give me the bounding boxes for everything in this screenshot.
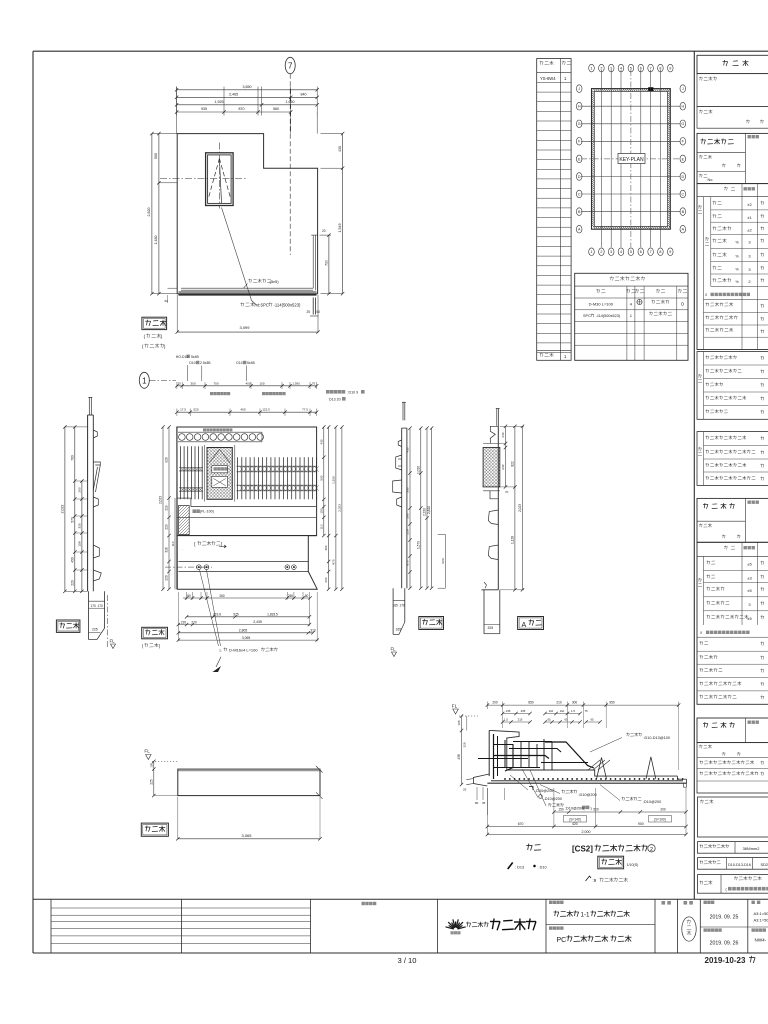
svg-text:): ) <box>159 643 161 648</box>
svg-text:SD2: SD2 <box>761 862 768 867</box>
svg-text:[S=140]: [S=140] <box>569 817 580 821</box>
label box 外観図 <box>141 823 168 836</box>
svg-text:FL: FL <box>391 647 397 652</box>
svg-text:1: 1 <box>564 354 567 359</box>
svg-text:±5: ±5 <box>747 562 752 567</box>
svg-text:1,549: 1,549 <box>338 224 342 233</box>
svg-text:950: 950 <box>609 701 615 705</box>
svg-text:[: [ <box>194 542 196 547</box>
svg-text:-D10@200: -D10@200 <box>535 789 553 793</box>
svg-text:3,099: 3,099 <box>239 325 250 330</box>
side view (right) lower part <box>393 588 406 634</box>
side view 側面図 (right) profile <box>393 402 407 588</box>
svg-text:200: 200 <box>492 701 498 705</box>
svg-text:65: 65 <box>564 718 568 722</box>
CS2 spacer triangles <box>597 757 656 779</box>
svg-text:220: 220 <box>181 620 187 624</box>
svg-text:520: 520 <box>593 808 599 812</box>
CS2 note 上端主筋 (right top) <box>590 733 670 752</box>
svg-text:): ) <box>591 806 593 810</box>
svg-text:632: 632 <box>501 464 505 469</box>
chamfer note 9c面取りを示す <box>586 876 628 883</box>
svg-text:590: 590 <box>406 487 410 492</box>
svg-text:80: 80 <box>475 801 479 805</box>
svg-text:2: 2 <box>600 250 602 254</box>
svg-text:3: 3 <box>748 240 751 245</box>
plan small left dim 60 <box>165 288 178 303</box>
svg-text:2,023: 2,023 <box>159 496 163 504</box>
svg-text:2,023: 2,023 <box>518 504 522 512</box>
svg-text:7: 7 <box>650 250 652 254</box>
label box A面図 <box>518 617 544 630</box>
出荷検査 section <box>697 718 768 743</box>
svg-text:325: 325 <box>488 626 494 630</box>
svg-text:C: C <box>681 192 684 196</box>
pre-pour measurement table <box>697 184 768 350</box>
svg-text:A: A <box>682 228 685 232</box>
CS2 rebar (dark lines) <box>478 734 683 781</box>
svg-text:9: 9 <box>669 67 671 71</box>
plan centerline crosshair <box>160 143 246 209</box>
key plan grid centerlines <box>581 70 680 247</box>
svg-text:2,435: 2,435 <box>253 620 262 624</box>
svg-text:215: 215 <box>518 718 523 722</box>
date stamp 2019-10-23 <box>705 956 756 965</box>
svg-text:PC: PC <box>557 937 567 944</box>
svg-text:FL: FL <box>144 749 150 754</box>
svg-text:629: 629 <box>441 558 445 563</box>
top view left dimension chain <box>159 425 175 591</box>
svg-text:5x4B: 5x4B <box>247 361 255 365</box>
svg-text:(: ( <box>142 344 144 349</box>
elevation 外観図 rectangle <box>178 766 323 799</box>
legend 凡例 <box>508 844 547 870</box>
svg-text:G: G <box>578 122 581 126</box>
shipping inspection rows <box>697 743 768 793</box>
svg-text:]: ] <box>221 542 222 547</box>
svg-text:1: 1 <box>142 376 147 385</box>
svg-text:1,480: 1,480 <box>154 236 158 245</box>
svg-text:200: 200 <box>660 808 666 812</box>
dates column <box>700 901 748 947</box>
svg-text:5x4B: 5x4B <box>191 355 199 359</box>
svg-text:J: J <box>578 87 580 91</box>
svg-text:O: O <box>681 301 685 306</box>
svg-text:D-M30 L=100: D-M30 L=100 <box>589 301 614 306</box>
svg-text:360: 360 <box>324 545 328 550</box>
svg-text:: D10: : D10 <box>538 866 547 870</box>
svg-text:A: A <box>522 622 527 629</box>
svg-text:560: 560 <box>273 107 279 111</box>
svg-text:B: B <box>578 210 581 214</box>
side view 側面図 (left) profile <box>88 397 102 591</box>
svg-text:5: 5 <box>630 250 632 254</box>
svg-text:400: 400 <box>240 408 245 412</box>
確認者 box <box>698 797 768 837</box>
svg-text:870: 870 <box>239 107 245 111</box>
作図 column + stamp circle <box>682 901 696 941</box>
svg-text:C: C <box>578 192 581 196</box>
svg-text:F: F <box>682 140 685 144</box>
svg-text:KEY-PLAN: KEY-PLAN <box>619 157 644 163</box>
svg-text:60: 60 <box>317 310 321 314</box>
svg-text:F: F <box>578 140 581 144</box>
svg-text:100: 100 <box>259 381 264 385</box>
svg-text:%: % <box>736 280 740 284</box>
svg-text:-114(500x523): -114(500x523) <box>596 314 621 318</box>
svg-text:1.5: 1.5 <box>571 709 575 713</box>
svg-text:2,805: 2,805 <box>239 629 248 633</box>
svg-text:325: 325 <box>77 523 81 528</box>
svg-text:205: 205 <box>521 709 526 713</box>
svg-text:-114(500x523): -114(500x523) <box>274 303 302 308</box>
svg-text:2,023: 2,023 <box>338 504 342 512</box>
svg-text:): ) <box>164 344 166 349</box>
製造日 row <box>697 107 768 129</box>
direction arrow A <box>213 657 222 672</box>
svg-text:2019. 09. 26: 2019. 09. 26 <box>710 940 739 946</box>
svg-text::D10@200: :D10@200 <box>579 793 597 797</box>
rebar inspection rows <box>697 352 768 420</box>
svg-text:D10: D10 <box>236 361 242 365</box>
svg-text:1,128: 1,128 <box>511 536 515 544</box>
コンクリート強度 row <box>698 842 768 854</box>
svg-text:. . .: . . . <box>180 547 184 551</box>
plan bottom right spout detail <box>307 298 321 317</box>
svg-text:SPC: SPC <box>583 314 591 318</box>
plan drip groove double line <box>181 235 318 290</box>
svg-text:[CS2]: [CS2] <box>572 845 593 854</box>
svg-text:70: 70 <box>312 381 316 385</box>
svg-text:L: L <box>220 648 223 653</box>
A面図 lower part <box>484 590 500 634</box>
KEY-PLAN label <box>618 154 645 164</box>
CS2 bottom dimension chains <box>486 788 688 836</box>
top view left rebar group <box>179 446 203 499</box>
svg-text:700: 700 <box>213 381 218 385</box>
svg-text:592: 592 <box>319 475 323 480</box>
key plan axis circles left J-A <box>576 85 582 233</box>
svg-text:450: 450 <box>70 557 74 563</box>
svg-text:YS-6W4: YS-6W4 <box>540 76 556 81</box>
svg-text:1: 1 <box>590 67 592 71</box>
打設前検査 section header <box>697 133 768 183</box>
svg-text:HO-D10: HO-D10 <box>176 355 189 359</box>
svg-text:570: 570 <box>70 517 74 523</box>
svg-text:260: 260 <box>219 594 225 598</box>
svg-text::9: :9 <box>593 878 597 883</box>
svg-text:225: 225 <box>92 628 98 632</box>
svg-text:2,465: 2,465 <box>229 92 238 96</box>
svg-text:B: B <box>682 210 685 214</box>
CS2 title 【CS2】バルコニー形状(2) <box>572 844 655 853</box>
svg-text:240: 240 <box>501 432 505 437</box>
svg-text:36N/mm2: 36N/mm2 <box>743 846 760 851</box>
svg-text:520: 520 <box>193 408 198 412</box>
section A面図 profile <box>482 408 500 590</box>
plan left dimension chain <box>147 132 177 296</box>
svg-text:E: E <box>682 157 685 161</box>
svg-text:730: 730 <box>324 260 328 266</box>
svg-text::D10 9: :D10 9 <box>348 390 359 394</box>
svg-text:920: 920 <box>165 457 169 463</box>
svg-text:-D10@200: -D10@200 <box>544 797 562 801</box>
plan bottom thick edge (drip) <box>179 292 317 295</box>
svg-text:310: 310 <box>310 629 316 633</box>
svg-text:FL: FL <box>110 639 116 644</box>
svg-text:3: 3 <box>748 254 751 259</box>
製品番号 row <box>697 74 768 107</box>
svg-text:6: 6 <box>640 250 642 254</box>
svg-text:105: 105 <box>149 762 153 767</box>
FL marker CS2 <box>452 704 478 717</box>
svg-text:229: 229 <box>165 524 169 530</box>
svg-text:210: 210 <box>556 701 562 705</box>
revision table header <box>362 902 377 905</box>
svg-text:1/10(S): 1/10(S) <box>627 863 639 867</box>
FL marker 外観図 <box>144 749 178 762</box>
svg-text:1.5: 1.5 <box>504 718 508 722</box>
svg-text:225: 225 <box>149 779 153 785</box>
label box 配筋図 + scale <box>598 856 638 869</box>
embedded parts inspection rows <box>697 432 768 486</box>
svg-text:17.5: 17.5 <box>180 408 186 412</box>
svg-text:2.5x3B: 2.5x3B <box>200 361 211 365</box>
svg-text:D: D <box>578 175 581 179</box>
svg-text:220: 220 <box>165 575 169 581</box>
svg-text:935: 935 <box>201 107 207 111</box>
top view center opening (hatch box) <box>205 445 235 502</box>
svg-text:328: 328 <box>463 742 467 747</box>
svg-text:(FL-100): (FL-100) <box>200 510 214 514</box>
top view circles row (U-bars) <box>178 428 264 441</box>
svg-text:D13 20: D13 20 <box>329 397 341 401</box>
svg-text:1,579: 1,579 <box>416 541 420 549</box>
scale column 縮尺/図面番号 <box>748 901 768 943</box>
外観図 bottom dimension 3,065 <box>176 797 322 841</box>
side view (left) dimension chains <box>60 425 87 593</box>
svg-text:2: 2 <box>748 279 751 284</box>
svg-text:270: 270 <box>191 620 197 624</box>
svg-text:430: 430 <box>338 146 342 152</box>
svg-text:E: E <box>578 157 581 161</box>
top view right rebar group <box>237 457 319 499</box>
svg-text:60: 60 <box>165 299 169 303</box>
svg-text:110: 110 <box>560 709 565 713</box>
svg-text:220: 220 <box>70 580 74 586</box>
svg-text:2019-10-23: 2019-10-23 <box>705 956 746 965</box>
svg-text:H: H <box>578 105 581 109</box>
svg-text:760: 760 <box>70 455 74 461</box>
svg-text:D: D <box>681 175 684 179</box>
svg-text:mt:SPC: mt:SPC <box>255 303 269 308</box>
CS2 left small dims <box>457 714 504 815</box>
svg-text:±2: ±2 <box>747 202 752 207</box>
svg-text:3 / 10: 3 / 10 <box>398 956 417 965</box>
side view (left) lower spout <box>89 591 108 648</box>
svg-text:220: 220 <box>324 577 328 582</box>
svg-text:90: 90 <box>187 594 191 598</box>
svg-text:420: 420 <box>572 822 578 826</box>
svg-text:135: 135 <box>506 709 511 713</box>
svg-text:9: 9 <box>669 250 671 254</box>
svg-text:110: 110 <box>171 541 175 546</box>
leader + note 水切り溝 (5x5) <box>244 279 280 288</box>
svg-text:430: 430 <box>406 447 410 452</box>
svg-text:500: 500 <box>154 153 158 159</box>
axis circle 1 (top view grid) <box>139 372 176 388</box>
top view 上面図 outline <box>177 427 317 589</box>
svg-text:2,320: 2,320 <box>423 508 427 516</box>
svg-text:3,650: 3,650 <box>243 85 252 89</box>
svg-text:25: 25 <box>307 310 311 314</box>
note 主筋本数計 <box>326 390 365 401</box>
svg-text:1: 1 <box>630 313 633 318</box>
svg-text:316: 316 <box>165 547 169 553</box>
svg-text:3: 3 <box>748 602 751 607</box>
top view right dimension chain <box>319 425 343 591</box>
CS2 notes 下端主筋/下端配力筋 <box>540 785 661 805</box>
svg-text:(5x5): (5x5) <box>270 279 280 284</box>
svg-text:165: 165 <box>393 604 399 608</box>
svg-text:[S=100]: [S=100] <box>654 817 665 821</box>
svg-text:400: 400 <box>245 381 250 385</box>
top view lifting inserts <box>165 565 296 570</box>
svg-text:G: G <box>681 122 684 126</box>
svg-text:FL: FL <box>452 704 458 709</box>
svg-text:280: 280 <box>406 513 410 518</box>
key plan outline (formwork band) <box>592 89 671 230</box>
svg-text:No.: No. <box>708 178 714 182</box>
CS2 notes left (bar marks) <box>510 769 593 810</box>
parts list table 取付部品リスト <box>575 273 688 360</box>
svg-text:8: 8 <box>659 250 661 254</box>
svg-text:870: 870 <box>332 559 336 564</box>
svg-text:300: 300 <box>190 381 195 385</box>
svg-text:105: 105 <box>457 720 461 725</box>
svg-text:2,023: 2,023 <box>60 505 64 514</box>
svg-text:A3:1=50: A3:1=50 <box>754 918 768 923</box>
svg-text:65: 65 <box>590 718 594 722</box>
plan view 下面図 outline <box>177 134 317 294</box>
svg-text:D10: D10 <box>189 361 195 365</box>
svg-text:822: 822 <box>511 461 515 467</box>
svg-text:4: 4 <box>630 301 633 306</box>
svg-text:150: 150 <box>319 508 323 513</box>
svg-text:±1: ±1 <box>747 215 752 220</box>
svg-text:(: ( <box>144 334 146 339</box>
svg-text:(: ( <box>142 643 144 648</box>
svg-text:170: 170 <box>91 604 97 608</box>
top view upper dimension chains <box>175 381 318 416</box>
svg-text:850: 850 <box>528 701 534 705</box>
svg-text:2,820: 2,820 <box>427 506 431 514</box>
svg-text:430: 430 <box>319 439 323 444</box>
svg-text:260: 260 <box>288 594 294 598</box>
svg-text:1: 1 <box>590 250 592 254</box>
side view (right) dimension chains <box>406 426 446 590</box>
svg-text:170: 170 <box>98 604 104 608</box>
svg-text:3: 3 <box>610 250 612 254</box>
CS2 concrete profile <box>466 730 686 787</box>
label box 上面図 (打設面) <box>142 627 168 648</box>
svg-text:228: 228 <box>406 529 410 534</box>
svg-text:438: 438 <box>457 754 461 760</box>
svg-text:A: A <box>578 228 581 232</box>
leader + note 連結mt:SPC型-114(500x523) <box>222 208 302 308</box>
鋼材の種類 row <box>698 858 768 870</box>
svg-text:1,516: 1,516 <box>332 476 336 484</box>
svg-text:575: 575 <box>233 613 239 617</box>
label box 側面図 (right) <box>419 617 444 630</box>
svg-text:±5: ±5 <box>747 588 752 593</box>
svg-text:170: 170 <box>400 604 406 608</box>
外観図 left dimension <box>149 760 177 798</box>
svg-text:300: 300 <box>572 701 578 705</box>
svg-text:3,065: 3,065 <box>242 636 251 640</box>
svg-text:%: % <box>736 255 740 259</box>
仕上げ row <box>698 875 768 894</box>
svg-text:900: 900 <box>638 822 644 826</box>
svg-text:70: 70 <box>505 490 509 494</box>
svg-text:±2: ±2 <box>747 227 752 232</box>
product list table 製品名/数量 <box>537 59 571 361</box>
svg-text:165: 165 <box>396 627 402 631</box>
製品検査 section <box>697 498 768 542</box>
plan window opening <box>206 153 234 206</box>
svg-text:75: 75 <box>584 709 588 713</box>
company logo 株式会社旭ダンケ <box>446 919 537 935</box>
FL marker (left side view) <box>110 639 116 649</box>
CS2 top dimension chain <box>486 701 681 770</box>
note 水抜配管図 box <box>180 541 226 551</box>
svg-text:X: X <box>700 631 703 635</box>
svg-text:260: 260 <box>77 487 81 492</box>
svg-text::D10@200: :D10@200 <box>643 800 661 804</box>
rebar type labels above top view <box>176 355 256 381</box>
svg-text:3,065: 3,065 <box>241 833 252 838</box>
label box 側面図 (left) <box>56 620 80 632</box>
svg-text:77.5: 77.5 <box>302 408 308 412</box>
svg-text:20: 20 <box>322 229 326 233</box>
svg-text:2,820: 2,820 <box>147 208 151 217</box>
svg-text:D10-D13-D16: D10-D13-D16 <box>728 863 751 867</box>
svg-text:): ) <box>161 334 163 339</box>
inspection sheet header 検査表 <box>697 55 768 73</box>
svg-text:±3: ±3 <box>747 576 752 581</box>
svg-text:1,925: 1,925 <box>215 100 224 104</box>
svg-text:35: 35 <box>482 801 486 805</box>
svg-text:110: 110 <box>319 524 323 529</box>
product inspection measurement rows <box>697 542 768 704</box>
svg-text:J: J <box>682 87 684 91</box>
svg-text:%: % <box>736 268 740 272</box>
svg-text:1,390: 1,390 <box>292 381 300 385</box>
A面図 dimension chains <box>500 425 524 592</box>
label box 下面図 (定着面)(透かし図) <box>142 317 167 349</box>
svg-text:±5: ±5 <box>747 616 752 621</box>
svg-text:1,833.5: 1,833.5 <box>267 613 278 617</box>
svg-text:A3:1=50: A3:1=50 <box>754 911 768 916</box>
svg-text:1-1: 1-1 <box>581 911 591 918</box>
svg-text:X: X <box>705 293 708 297</box>
key plan axis circles bottom 1-9 <box>589 248 673 256</box>
svg-text:870: 870 <box>406 560 410 565</box>
svg-text:1,650: 1,650 <box>286 100 295 104</box>
key plan axis circles right J-A <box>680 85 686 233</box>
sheet number 3 / 10 <box>398 956 417 965</box>
svg-text:: D13: : D13 <box>515 866 524 870</box>
